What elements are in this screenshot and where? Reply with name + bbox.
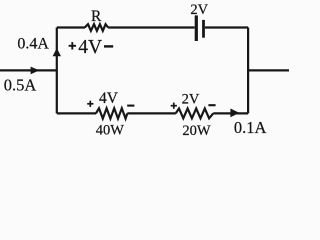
svg-text:R: R: [91, 8, 102, 25]
wire: left vertical branch (node A to node B): [56, 28, 58, 114]
svg-text:0.4A: 0.4A: [17, 36, 49, 53]
label - (20W resistor polarity): [208, 104, 215, 106]
wire: bottom middle segment: [127, 112, 176, 114]
label - (40W resistor polarity): [127, 105, 134, 107]
resistor 40W (zigzag): [96, 108, 127, 118]
svg-text:40W: 40W: [96, 122, 125, 138]
arrowhead: current direction 0.5A (rightward): [31, 67, 40, 75]
arrowhead: current direction 0.4A (upward): [53, 48, 61, 56]
resistor 20W (zigzag): [176, 109, 214, 119]
label + (20W resistor polarity): [171, 105, 177, 107]
svg-text:2V: 2V: [182, 91, 200, 107]
wire: top right segment: [205, 26, 248, 28]
battery 2V: long plate: [195, 15, 198, 41]
wire: input lead left, 0.5A branch: [0, 69, 57, 71]
label + (40W resistor polarity): [87, 103, 93, 105]
wire: top middle segment: [108, 26, 195, 28]
label - (polarity of R voltage): [104, 45, 113, 47]
wire: bottom right segment: [213, 112, 248, 114]
arrowhead: current direction 0.1A (rightward): [230, 109, 239, 118]
svg-text:4V: 4V: [78, 37, 102, 58]
svg-text:4V: 4V: [99, 90, 119, 107]
svg-text:2V: 2V: [190, 2, 208, 18]
svg-text:0.1A: 0.1A: [234, 118, 267, 137]
svg-text:0.5A: 0.5A: [4, 75, 37, 94]
battery 2V: short plate: [202, 20, 205, 38]
resistor R (zigzag): [85, 24, 108, 31]
wire: bottom left segment: [57, 112, 96, 114]
wire: top left segment: [57, 26, 85, 28]
label + (polarity of R voltage): [69, 45, 76, 47]
wire: right vertical branch: [247, 28, 249, 114]
svg-text:20W: 20W: [182, 123, 211, 138]
wire: output lead right: [248, 69, 289, 71]
